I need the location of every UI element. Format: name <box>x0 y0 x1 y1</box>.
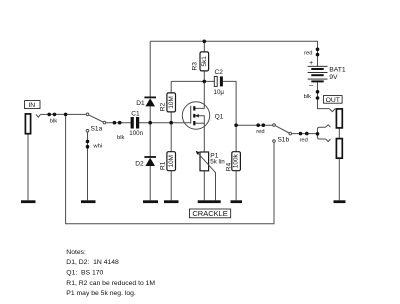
svg-text:100n: 100n <box>129 130 143 137</box>
svg-text:S1b: S1b <box>277 137 289 144</box>
svg-text:10M: 10M <box>168 96 175 108</box>
svg-text:Q1: Q1 <box>215 113 224 120</box>
svg-text:blk: blk <box>117 135 125 141</box>
svg-text:S1a: S1a <box>91 125 103 132</box>
svg-text:R4: R4 <box>226 162 233 171</box>
svg-text:blk: blk <box>304 94 312 100</box>
svg-text:R1, R2 can be reduced to 1M: R1, R2 can be reduced to 1M <box>66 280 155 287</box>
svg-text:+: + <box>309 60 313 67</box>
svg-text:D1: D1 <box>136 100 145 107</box>
svg-text:red: red <box>300 137 308 143</box>
svg-text:whi: whi <box>92 144 102 150</box>
svg-text:R3: R3 <box>192 62 199 71</box>
svg-text:P1 may be 5k neg. log.: P1 may be 5k neg. log. <box>66 290 136 297</box>
svg-text:CRACKLE: CRACKLE <box>192 209 227 218</box>
svg-text:Notes:: Notes: <box>66 249 86 256</box>
svg-text:R1: R1 <box>159 161 166 170</box>
svg-text:OUT: OUT <box>326 97 340 104</box>
svg-text:C1: C1 <box>131 110 140 117</box>
svg-text:10µ: 10µ <box>214 89 225 96</box>
svg-text:D2: D2 <box>135 161 144 168</box>
svg-text:blk: blk <box>50 119 58 125</box>
svg-text:D1, D2: 1N 4148: D1, D2: 1N 4148 <box>66 259 119 266</box>
svg-text:R2: R2 <box>159 102 166 111</box>
svg-text:C2: C2 <box>215 69 224 76</box>
svg-text:100k: 100k <box>233 153 240 168</box>
svg-text:9V: 9V <box>329 74 338 81</box>
svg-text:10M: 10M <box>168 155 175 167</box>
svg-text:–: – <box>309 82 313 89</box>
svg-text:red: red <box>304 51 312 57</box>
svg-text:5k1: 5k1 <box>201 56 208 67</box>
svg-text:5k lin: 5k lin <box>210 158 225 165</box>
svg-text:IN: IN <box>28 102 35 109</box>
svg-text:red: red <box>256 129 264 135</box>
svg-text:BAT1: BAT1 <box>329 67 346 74</box>
svg-text:Q1: BS 170: Q1: BS 170 <box>66 270 103 277</box>
